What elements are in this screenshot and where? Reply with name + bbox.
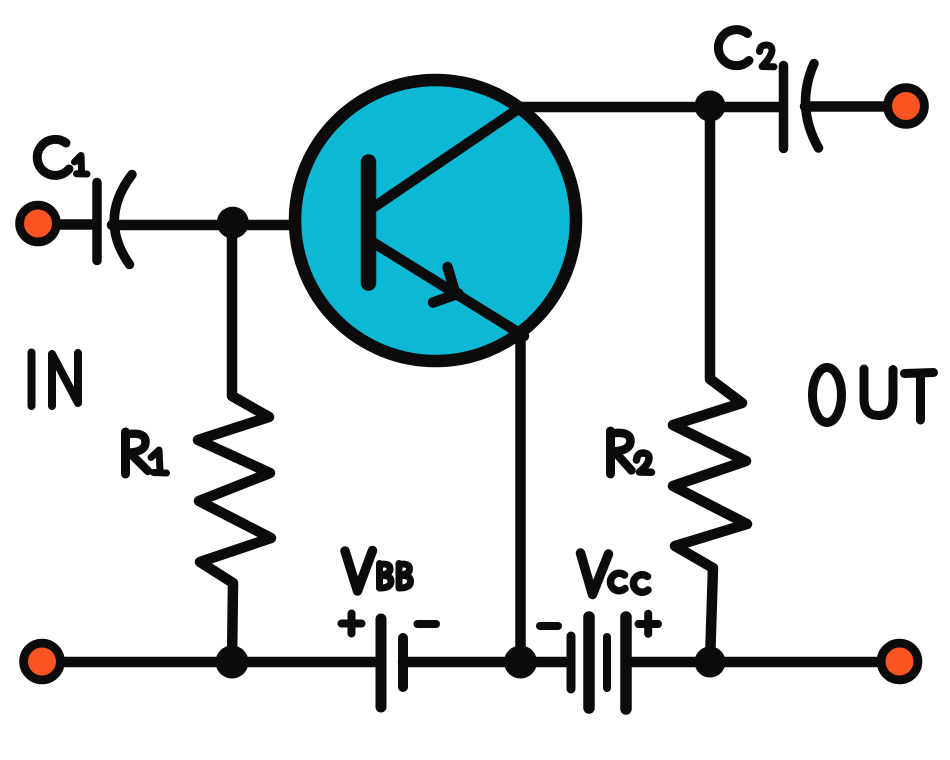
terminal IN bottom [24, 643, 61, 680]
capacitor C2 [784, 64, 819, 149]
node collector junction [695, 91, 726, 122]
wire C2 to OUT terminal [805, 101, 886, 112]
capacitor C1 [97, 175, 132, 265]
label R2 [611, 431, 652, 474]
label OUT [813, 368, 934, 423]
terminal OUT bottom [881, 643, 918, 680]
label VBB [345, 551, 411, 592]
label C2 [718, 30, 774, 67]
wire C1 to base node [112, 220, 233, 231]
transistor Q1 body [295, 80, 576, 361]
wire bottom rail left segment [42, 657, 381, 668]
wire bottom rail middle segment [403, 657, 569, 668]
transistor Q1 base bar [361, 162, 377, 283]
label VCC [581, 553, 649, 595]
label R1 [126, 432, 167, 474]
label VBB plus [342, 614, 362, 634]
terminal IN top [20, 205, 57, 242]
wire IN terminal to C1 [40, 219, 92, 230]
node bottom emitter junction [504, 646, 537, 679]
node bottom R1 junction [216, 646, 249, 679]
wire top rail collector to C2 [517, 102, 779, 113]
resistor R2 [673, 107, 747, 662]
terminal OUT top [888, 88, 925, 125]
label VCC plus [639, 614, 659, 634]
wire bottom rail right segment [627, 657, 898, 668]
transistor Q1 emitter arrow [433, 267, 459, 303]
label VCC minus [540, 622, 558, 630]
node bottom R2 junction [695, 647, 726, 678]
label IN [32, 353, 79, 407]
node base junction [217, 207, 249, 239]
transistor Q1 emitter line [374, 243, 524, 336]
battery VCC plates [571, 617, 626, 709]
transistor Q1 collector line [374, 107, 521, 207]
label VBB minus [418, 620, 437, 628]
wire emitter down to bottom rail [515, 332, 526, 662]
wire base node to transistor base [233, 220, 362, 231]
resistor R1 [198, 224, 271, 662]
label C1 [37, 139, 87, 175]
battery VBB plates [381, 619, 403, 707]
